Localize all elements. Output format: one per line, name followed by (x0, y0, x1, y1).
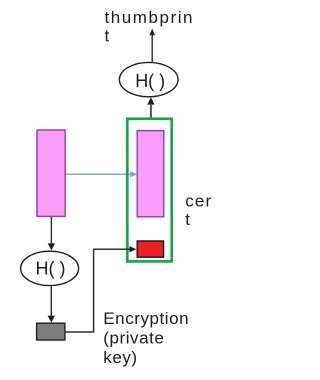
wire: H() output up to thumbprint (151, 34, 153, 63)
block: cert body (pink) (137, 131, 164, 217)
svg-text:(private: (private (103, 328, 164, 347)
block: data to sign (pink, left) (37, 130, 65, 216)
wire: cert up to H() (150, 104, 152, 119)
wire: left block down to H() (50, 217, 52, 245)
block: encryption (gray) (37, 323, 65, 340)
wire: blue copy arrow from left block to cert block (66, 173, 132, 175)
arrowhead blue right (130, 171, 137, 177)
arrowhead right into signature (129, 246, 136, 252)
arrowhead down into H() (48, 243, 55, 250)
svg-text:t: t (185, 210, 190, 229)
arrowhead up into H() bottom (147, 97, 154, 104)
svg-text:H( ): H( ) (36, 259, 66, 279)
block: signature (red) (137, 241, 163, 257)
op H() U1 top ellipse (119, 62, 178, 96)
op H() U2 left ellipse (21, 251, 79, 285)
arrowhead up to thumbprint (149, 29, 155, 36)
cert container green box (127, 119, 171, 262)
wire: H() down to encryption (50, 286, 52, 317)
wire: encryption output to signature (L shaped) (65, 249, 130, 332)
svg-text:cer: cer (185, 192, 212, 211)
svg-text:key): key) (103, 348, 137, 367)
arrowhead down into encryption box (48, 316, 55, 323)
svg-text:t: t (105, 27, 110, 46)
svg-text:H( ): H( ) (135, 71, 165, 91)
svg-text:thumbprin: thumbprin (105, 8, 195, 27)
svg-text:Encryption: Encryption (103, 309, 189, 328)
